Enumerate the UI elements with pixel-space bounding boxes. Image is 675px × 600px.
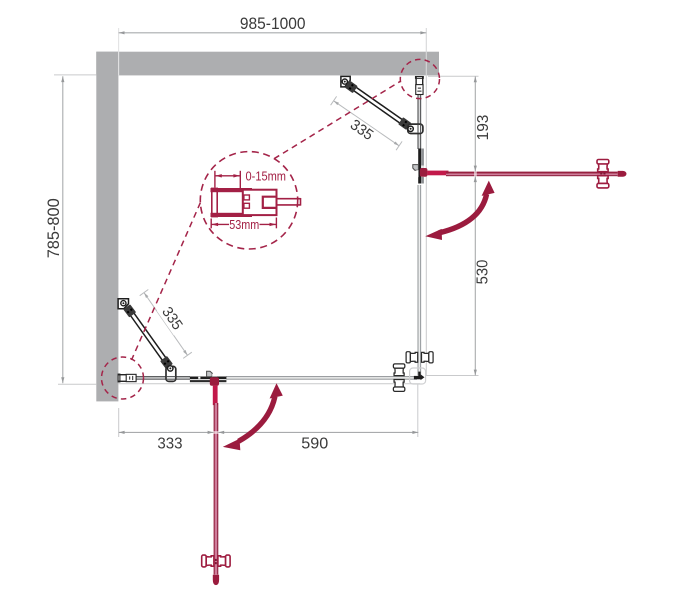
dim line halo over bottom door band xyxy=(213,431,218,434)
support bar top-right: collar at bottom xyxy=(398,117,411,130)
dimension line 985-1000 xyxy=(119,32,427,34)
open door bottom: handle xyxy=(202,555,230,567)
detail dimension 0-15mm xyxy=(215,171,240,189)
extension line right of dim 985-1000 (crosses wall) xyxy=(425,28,427,77)
dimension line 785-800 xyxy=(62,76,64,383)
bottom handle center marks xyxy=(215,559,217,561)
detail: panel profile box xyxy=(243,190,277,215)
arrow top of 785-800 xyxy=(61,76,64,82)
support bar top-right: wall bracket xyxy=(341,76,350,87)
support bar top-right: wall bracket screw xyxy=(342,79,347,84)
open door bottom: bright segment xyxy=(213,386,218,406)
dashed circle top-right hinge xyxy=(400,59,439,98)
wall top (gray) xyxy=(96,52,439,76)
open door bottom (red): knuckle xyxy=(210,377,219,386)
open door right: end tip xyxy=(618,171,627,177)
dimension line 193 xyxy=(474,76,476,171)
detail: clips xyxy=(244,195,250,200)
arrow right of 590 xyxy=(412,431,418,434)
support bar bottom-left: collar at bottom xyxy=(160,356,173,369)
extension line bottom of dim 785-800 xyxy=(58,383,96,385)
gray handle on right closed door xyxy=(406,352,433,363)
extension line left of dim 333 xyxy=(118,408,120,437)
label 335 bottom xyxy=(157,301,188,335)
label 335 top xyxy=(345,115,379,146)
right closed door glass (gray) xyxy=(418,185,421,376)
detail: glass xyxy=(277,198,301,206)
dimension line 530 xyxy=(474,176,476,375)
svg-text:193: 193 xyxy=(475,115,492,141)
extension line top of dim 193 xyxy=(428,75,479,77)
support bar bottom-left: pivot clamp xyxy=(166,366,176,381)
extension line bottom of dim 530 xyxy=(426,375,479,377)
dimension 335 top bar xyxy=(331,96,403,150)
arrow left of 333 xyxy=(119,431,125,434)
arrow right of 985-1000 xyxy=(420,31,426,34)
dashed circle bottom-left hinge xyxy=(102,357,144,399)
detail: wall channel web xyxy=(212,188,217,216)
dimension line 333 xyxy=(119,431,214,433)
svg-text:590: 590 xyxy=(301,436,328,453)
open door bottom: door band xyxy=(214,403,219,575)
arrow bottom of 785-800 xyxy=(61,377,64,383)
leader dashed line to top-right circle xyxy=(274,81,400,159)
bottom closed door glass (gray) xyxy=(226,376,417,379)
support bar bottom-left: wall bracket screw xyxy=(121,301,126,306)
extension line right of dim 590 xyxy=(417,385,419,438)
detail: wall channel top flange xyxy=(211,188,253,192)
right hinge xyxy=(413,149,424,184)
corner bracket (black) xyxy=(414,372,425,381)
dim line halo over right door band xyxy=(474,171,477,176)
support bar top-right: collar at top xyxy=(345,80,358,93)
support bar bottom-left: pivot screw xyxy=(168,366,173,371)
arrow left of 985-1000 xyxy=(119,31,125,34)
support bar bottom-left: collar at top xyxy=(123,304,136,317)
right fixed glass panel xyxy=(418,93,421,149)
svg-text:530: 530 xyxy=(475,260,492,285)
dimension 335 bottom bar xyxy=(140,290,192,359)
svg-text:0-15mm: 0-15mm xyxy=(246,168,287,183)
corner profile (rounded square) xyxy=(410,368,426,384)
svg-text:333: 333 xyxy=(157,436,182,453)
open door right (red): knuckle xyxy=(420,168,428,177)
swing arrow bottom door xyxy=(223,383,283,450)
detail: glass clamp U xyxy=(263,197,277,208)
dimension line 590 xyxy=(218,431,418,433)
detail: wall channel bottom flange xyxy=(211,213,253,217)
support bar top-right: pivot screw xyxy=(408,126,413,131)
detail dimension 53mm xyxy=(211,218,276,229)
extension line left of dim 985-1000 (crosses wall) xyxy=(118,28,120,75)
right handle center marks xyxy=(600,173,602,175)
arrow bottom of 530 xyxy=(474,370,477,376)
arrow bottom of 193 xyxy=(474,166,477,172)
leader dashed line to bottom-left circle xyxy=(132,203,201,360)
open door right: bright segment xyxy=(427,171,448,176)
support bar top-right: pivot clamp xyxy=(408,124,423,133)
label 785-800 xyxy=(45,198,63,258)
wall profile top-right (mini) xyxy=(415,77,423,95)
open door bottom: end tip xyxy=(213,575,219,585)
arrow right of 333 xyxy=(208,431,214,434)
open door right: door band xyxy=(446,172,618,177)
arrow top of 193 xyxy=(474,77,477,83)
label 193 xyxy=(475,115,492,141)
arrow left of 590 xyxy=(219,431,225,434)
support bar bottom-left: rod xyxy=(130,312,166,361)
svg-text:53mm: 53mm xyxy=(229,217,259,232)
svg-text:785-800: 785-800 xyxy=(45,198,63,258)
gray handle on bottom closed door xyxy=(393,364,404,392)
right outer frame edge line xyxy=(425,77,427,376)
extension line top of dim 785-800 xyxy=(54,74,96,76)
svg-text:985-1000: 985-1000 xyxy=(240,15,306,33)
bottom hinge xyxy=(190,371,227,382)
arrow top of 530 xyxy=(474,176,477,182)
bottom fixed glass panel xyxy=(134,376,190,379)
support bar top-right: rod xyxy=(353,87,403,124)
support bar bottom-left: wall bracket xyxy=(118,299,128,309)
open door right: handle xyxy=(597,160,609,188)
wall profile bottom-left (mini) xyxy=(118,374,136,382)
bottom outer frame edge line xyxy=(119,383,421,385)
label 530 xyxy=(475,260,492,285)
detail circle (dashed) xyxy=(200,152,297,249)
swing arrow right door xyxy=(425,181,494,240)
wall left (gray) xyxy=(96,52,118,402)
